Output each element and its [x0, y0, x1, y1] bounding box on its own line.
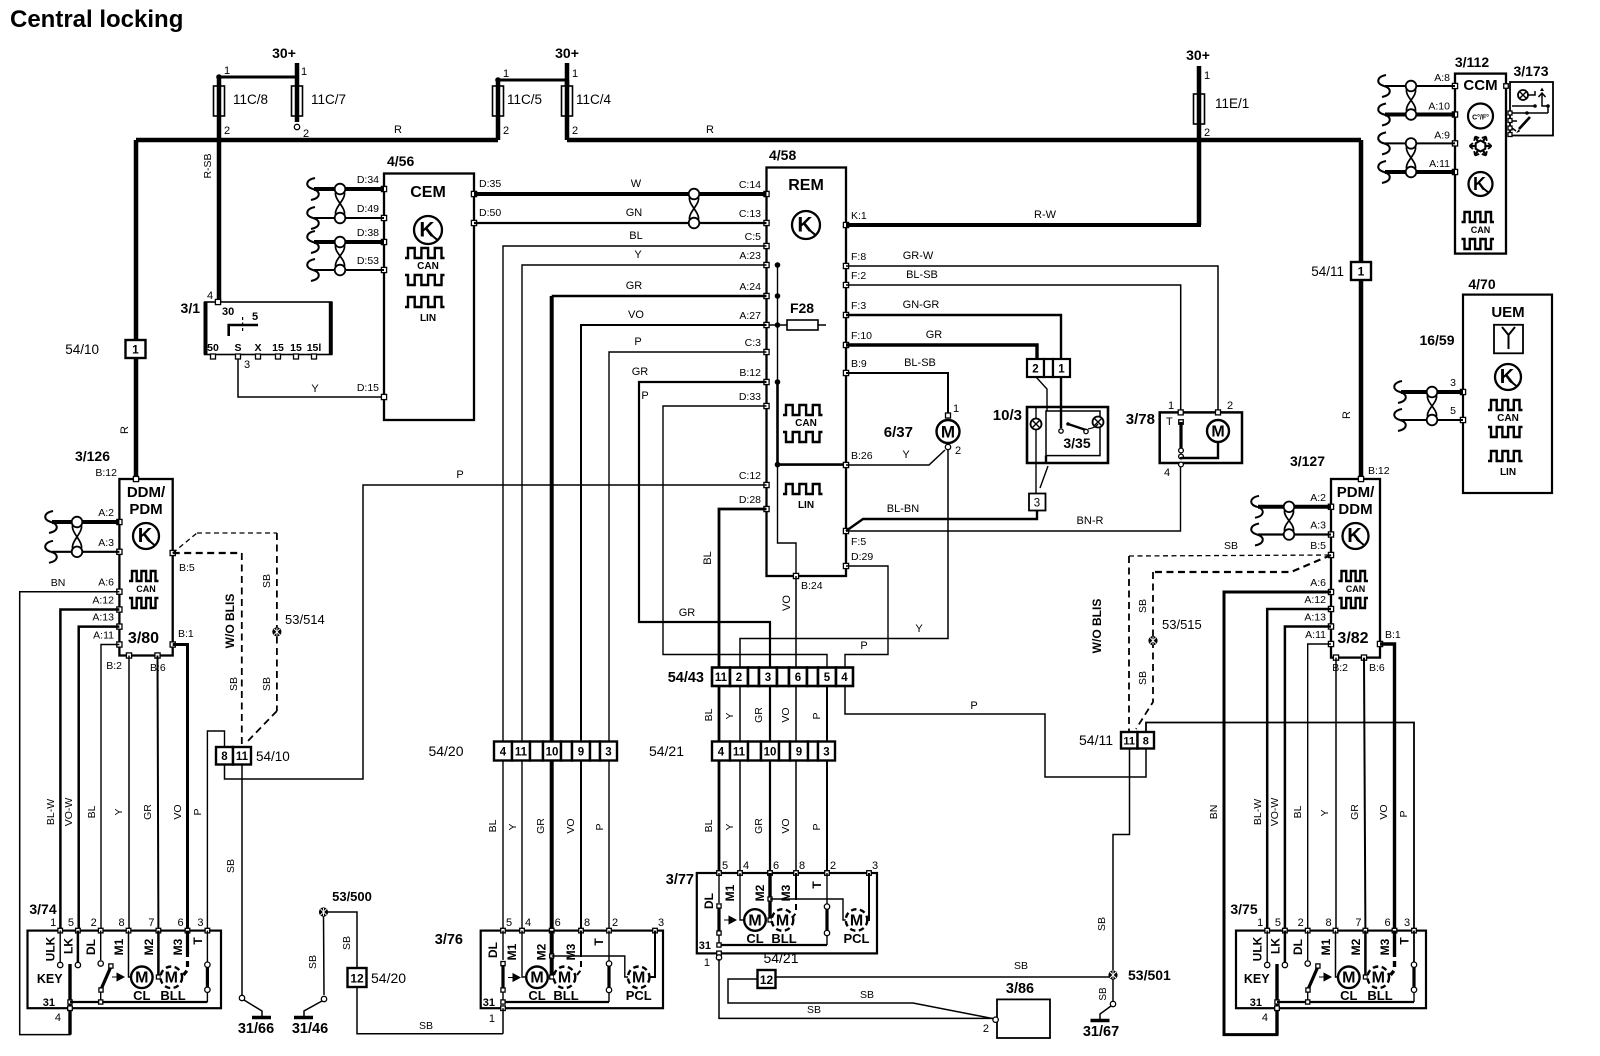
svg-text:3/82: 3/82: [1337, 630, 1368, 647]
svg-text:M1: M1: [505, 943, 519, 960]
3/74 motor BLL: [157, 931, 160, 977]
wire R bus left: [136, 138, 498, 143]
REM pin F:2: [843, 282, 848, 287]
svg-text:D:49: D:49: [357, 203, 379, 215]
PDM pin A:11: [1328, 641, 1333, 646]
wire BL A:11 to 3/74 pin2: [101, 645, 119, 931]
svg-text:B:26: B:26: [851, 450, 873, 462]
unit 3/86: [997, 999, 1050, 1038]
svg-text:1: 1: [50, 917, 56, 929]
door lock unit 3/76 left rear: [481, 931, 663, 1009]
wire BL D:28 to 54/43 pin11: [719, 509, 767, 668]
svg-text:VO: VO: [780, 707, 792, 722]
svg-text:K: K: [1347, 525, 1362, 547]
wire SB 3/77 pin1 to 3/86 pin2: [719, 959, 993, 1018]
svg-text:A:11: A:11: [1305, 629, 1326, 641]
svg-text:LK: LK: [1268, 938, 1282, 954]
svg-text:REM: REM: [788, 177, 824, 194]
svg-text:11C/8: 11C/8: [233, 92, 268, 107]
svg-text:C:3: C:3: [745, 337, 762, 349]
wire Y 54/20 to 3/76 pin4: [521, 761, 523, 931]
REM pin B:26: [843, 462, 848, 467]
wire VO-W A:13 to 3/75 pin5: [1285, 627, 1331, 931]
svg-text:3/86: 3/86: [1006, 981, 1034, 997]
svg-text:11: 11: [733, 746, 746, 758]
svg-text:Y: Y: [634, 249, 642, 261]
svg-text:K: K: [1473, 174, 1486, 194]
svg-text:R: R: [119, 426, 131, 434]
svg-text:1: 1: [224, 65, 230, 77]
svg-text:54/10: 54/10: [256, 749, 290, 764]
svg-text:31/67: 31/67: [1083, 1024, 1119, 1040]
svg-text:B:12: B:12: [1368, 465, 1390, 477]
3/75 DL switch: [1307, 931, 1309, 960]
svg-text:T: T: [1166, 416, 1173, 428]
UEM pin 3: [1460, 389, 1465, 394]
svg-text:CL: CL: [1340, 988, 1357, 1003]
wire GR loop B:12 to 54/43 pin3: [639, 382, 770, 668]
svg-text:5: 5: [824, 672, 831, 684]
svg-text:4/58: 4/58: [769, 147, 796, 163]
wire BN A:6 to 3/74 pin4: [20, 592, 120, 1035]
wire SB dashed W/O BLIS to PDM B:5: [1129, 555, 1331, 556]
switch unit 3/35 box: [1046, 411, 1100, 456]
svg-text:SB: SB: [1096, 917, 1108, 931]
REM pin F:3: [843, 312, 848, 317]
3/77 M3 dashed wire: [795, 873, 797, 894]
DDM CAN symbol: [129, 571, 158, 581]
wire Y B:26 to 6/37 pin2: [846, 450, 945, 465]
REM pin B:9: [843, 370, 848, 375]
svg-text:KEY: KEY: [37, 972, 63, 986]
svg-text:8: 8: [1325, 917, 1331, 929]
svg-text:3: 3: [1404, 917, 1410, 929]
svg-text:1: 1: [1204, 70, 1210, 82]
svg-text:A:13: A:13: [1304, 612, 1326, 624]
DDM pin A:2: [117, 519, 122, 524]
svg-text:4: 4: [841, 672, 848, 684]
door lock unit 3/74 driver: [28, 931, 222, 1009]
svg-text:11C/4: 11C/4: [576, 92, 612, 107]
svg-text:3: 3: [1034, 498, 1040, 510]
svg-text:5: 5: [1450, 405, 1456, 417]
svg-text:8: 8: [1143, 736, 1149, 748]
3/74 motor CL: [129, 931, 132, 977]
ground 31/46: [321, 996, 326, 1001]
svg-text:BL: BL: [86, 805, 98, 818]
svg-text:GR: GR: [626, 280, 643, 292]
svg-text:B:5: B:5: [179, 562, 195, 574]
svg-text:BN: BN: [1208, 805, 1220, 820]
svg-text:C°/F°: C°/F°: [1472, 114, 1489, 122]
svg-text:DL: DL: [84, 939, 98, 955]
CCM pin A:9: [1452, 141, 1457, 146]
PDM pin A:2: [1328, 504, 1333, 509]
wire VO B:1 to 3/74 pin6: [173, 645, 188, 931]
svg-text:7: 7: [1355, 917, 1361, 929]
svg-text:7: 7: [148, 917, 154, 929]
wire SB 53/500 down to 31/46: [323, 916, 326, 995]
connector 54/10 pin 1: [126, 340, 146, 358]
ground 31/66: [239, 995, 244, 1000]
svg-text:31: 31: [1250, 997, 1262, 1009]
svg-text:1: 1: [301, 66, 307, 78]
svg-text:M: M: [850, 912, 863, 929]
svg-text:VO: VO: [172, 804, 184, 819]
ground junction 53/514: [272, 627, 281, 636]
wire BL 54/21 to 3/77 pin5: [718, 761, 721, 874]
svg-text:3/74: 3/74: [29, 901, 56, 917]
wire SB 54/20 pin12 to 3/76 pin1: [357, 987, 503, 1034]
svg-text:BL: BL: [702, 551, 714, 564]
svg-text:SB: SB: [225, 859, 237, 873]
svg-text:2: 2: [1032, 363, 1038, 375]
svg-text:BL-W: BL-W: [1252, 799, 1264, 825]
REM pin A:23: [764, 262, 769, 267]
svg-text:4: 4: [1164, 467, 1170, 479]
svg-text:A:2: A:2: [98, 507, 114, 519]
svg-text:B:2: B:2: [106, 660, 122, 672]
svg-text:LK: LK: [61, 938, 75, 954]
svg-text:2: 2: [612, 917, 618, 929]
REM pin C:5: [764, 243, 769, 248]
fuse F28: [767, 324, 827, 326]
svg-text:10/3: 10/3: [993, 407, 1022, 424]
CEM pin D:49: [381, 215, 386, 220]
svg-text:A:3: A:3: [98, 537, 114, 549]
svg-text:10: 10: [546, 746, 559, 758]
3/75 DL arrow: [1319, 973, 1331, 981]
wire VO 54/43 to 54/21: [795, 686, 797, 742]
svg-text:M2: M2: [142, 938, 156, 955]
wire VO loop A:27: [581, 325, 767, 742]
svg-text:D:15: D:15: [357, 382, 379, 394]
3/75 31 bus: [1277, 1001, 1414, 1003]
CEM pin D:35: [471, 191, 476, 196]
wire SB dashed B:5 to W/O BLIS drop: [173, 552, 242, 554]
wire BL A:11 to 3/75 pin2: [1308, 644, 1331, 931]
svg-text:12: 12: [350, 972, 364, 986]
svg-text:2: 2: [736, 672, 742, 684]
wire P 54/11 pin8 to 3/75 pin3: [1146, 723, 1414, 931]
wire GR 54/43 to 54/21: [769, 686, 771, 742]
svg-text:4: 4: [500, 746, 507, 758]
fuse 11E/1: [1197, 66, 1202, 225]
3/77 DL contact: [718, 873, 720, 903]
svg-text:30+: 30+: [555, 45, 579, 61]
wire P loop C:12 to 54/10 pin8: [225, 485, 767, 779]
svg-text:31: 31: [483, 997, 495, 1009]
svg-text:BL-SB: BL-SB: [904, 357, 936, 369]
svg-text:9: 9: [796, 746, 802, 758]
svg-text:B:12: B:12: [739, 367, 761, 379]
svg-text:3/112: 3/112: [1455, 54, 1489, 70]
svg-text:M: M: [1342, 970, 1355, 987]
svg-text:GR-W: GR-W: [903, 250, 934, 262]
twisted pair into CEM D:34/D:49: [307, 178, 319, 200]
svg-text:R-SB: R-SB: [202, 153, 214, 178]
svg-text:5: 5: [252, 311, 258, 323]
svg-text:PDM: PDM: [129, 501, 162, 518]
svg-text:R-W: R-W: [1034, 209, 1057, 221]
fuse 11C/7: [295, 86, 300, 122]
module PDM/DDM 3/127: [1331, 479, 1380, 658]
svg-text:53/514: 53/514: [285, 612, 325, 627]
wire GR F:10 to 10/3 pin2: [846, 345, 1037, 359]
wire P 54/43 to 54/21: [826, 686, 828, 742]
svg-text:Y: Y: [507, 823, 519, 830]
3/173 pins: [1504, 84, 1509, 89]
3/74 DL switch: [100, 931, 102, 960]
3/75 motor BLL: [1364, 931, 1367, 977]
svg-text:BL-SB: BL-SB: [906, 269, 938, 281]
wire Y 54/21 to 3/77 pin4: [739, 761, 741, 874]
svg-text:53/515: 53/515: [1162, 617, 1202, 632]
DDM pin B:1: [170, 642, 175, 647]
wire R drop to 3/127: [1359, 140, 1364, 479]
wire BL-SB F:2 to 3/78 pin1: [846, 285, 1181, 412]
wire W D:35 to C:14: [474, 192, 767, 196]
svg-text:8: 8: [584, 917, 590, 929]
svg-text:M: M: [530, 970, 543, 987]
svg-text:3/1: 3/1: [181, 300, 201, 316]
svg-text:1: 1: [953, 403, 959, 415]
svg-text:X: X: [254, 342, 261, 354]
svg-text:ULK: ULK: [44, 936, 58, 961]
svg-text:LIN: LIN: [798, 500, 814, 511]
wire P loop D:33 to 54/43 pin5: [663, 406, 827, 668]
3/75 motor CL: [1336, 931, 1339, 977]
svg-text:2: 2: [955, 445, 961, 457]
3/74 31 bus: [70, 1001, 207, 1003]
svg-text:M1: M1: [723, 884, 737, 901]
svg-text:BN: BN: [51, 577, 66, 589]
svg-text:1: 1: [1358, 265, 1365, 279]
switch 3/35 blade: [1060, 377, 1062, 428]
svg-text:T: T: [592, 938, 606, 946]
svg-text:VO: VO: [628, 309, 644, 321]
svg-text:4: 4: [207, 290, 213, 302]
wire BL-W A:12 to 3/75 pin1: [1267, 609, 1331, 931]
unit 10/3 box: [1027, 407, 1108, 463]
3/77 arrow: [724, 916, 736, 924]
CEM pin D:53: [381, 267, 386, 272]
svg-text:3: 3: [605, 746, 611, 758]
svg-text:BLL: BLL: [553, 988, 578, 1003]
wire Y B:2 to 3/75 pin8: [1335, 658, 1337, 931]
svg-text:54/20: 54/20: [371, 970, 406, 986]
CCM CAN symbol: [1462, 212, 1495, 222]
svg-text:16/59: 16/59: [1419, 332, 1454, 348]
3/76 arrow: [508, 974, 520, 982]
svg-text:5: 5: [1275, 917, 1281, 929]
svg-text:SB: SB: [307, 955, 319, 969]
wire BL loop C:5: [503, 246, 767, 742]
svg-text:A:24: A:24: [739, 281, 761, 293]
svg-text:M: M: [165, 970, 178, 987]
svg-text:11C/5: 11C/5: [507, 92, 542, 107]
DDM pin A:11: [117, 642, 122, 647]
svg-text:3/173: 3/173: [1513, 63, 1548, 79]
twisted pair into PDM A:2/A:3: [1251, 496, 1263, 518]
svg-text:3/35: 3/35: [1063, 435, 1090, 451]
connector 54/11 pin 1: [1351, 262, 1371, 280]
svg-text:1: 1: [572, 68, 578, 80]
lamp left in 10/3: [1031, 419, 1042, 430]
REM pin B:12: [764, 379, 769, 384]
svg-text:SB: SB: [261, 574, 273, 588]
3/76 motor BLL: [550, 931, 554, 977]
module CCM 3/112: [1455, 74, 1506, 254]
svg-text:BL: BL: [703, 708, 715, 721]
REM pin C:13: [764, 220, 769, 225]
DDM pin B:2: [126, 653, 131, 658]
svg-text:DL: DL: [702, 893, 716, 909]
svg-text:SB: SB: [341, 936, 353, 950]
wire GN D:50 to C:13: [474, 222, 767, 224]
fuse 11C/8: [217, 77, 222, 140]
svg-text:M3: M3: [1378, 938, 1392, 955]
PDM pin A:13: [1328, 624, 1333, 629]
svg-text:M: M: [1372, 970, 1385, 987]
svg-text:A:13: A:13: [92, 612, 114, 624]
svg-text:54/43: 54/43: [668, 670, 704, 686]
wire BL 54/43 to 54/21: [718, 686, 721, 742]
svg-text:R: R: [706, 124, 714, 136]
svg-text:M3: M3: [171, 938, 185, 955]
svg-text:VO-W: VO-W: [1269, 798, 1281, 827]
svg-text:3: 3: [823, 746, 829, 758]
svg-text:2: 2: [830, 860, 836, 872]
svg-text:BL: BL: [1292, 805, 1304, 818]
svg-text:6: 6: [795, 672, 801, 684]
svg-text:B:5: B:5: [1310, 540, 1326, 552]
3/78 T contact: [1179, 420, 1184, 425]
REM internal line to B:26: [778, 382, 847, 465]
DDM pin B:6: [155, 653, 160, 658]
svg-text:T: T: [810, 881, 824, 889]
svg-text:DL: DL: [486, 942, 500, 958]
svg-text:UEM: UEM: [1491, 304, 1524, 321]
wire P 3/74 pin3 to 54/10 pin8: [207, 731, 224, 931]
PDM pin A:3: [1328, 532, 1333, 537]
svg-text:B:6: B:6: [1369, 662, 1385, 674]
svg-text:2: 2: [91, 917, 97, 929]
svg-text:VO-W: VO-W: [63, 798, 75, 827]
lamp right in 10/3: [1093, 417, 1104, 428]
svg-text:11: 11: [236, 751, 249, 763]
wire Y loop A:23: [522, 265, 767, 742]
svg-text:BL: BL: [703, 819, 715, 832]
DDM pin A:3: [117, 549, 122, 554]
PDM pin A:12: [1328, 606, 1333, 611]
wire GR B:6 to 3/75 pin7: [1364, 658, 1365, 931]
twisted pair symbol W/GN: [689, 198, 698, 220]
svg-text:2: 2: [983, 1023, 989, 1035]
REM pin C:14: [764, 191, 769, 196]
svg-text:P: P: [594, 823, 606, 830]
wire P loop C:3: [609, 352, 767, 742]
svg-text:R: R: [1341, 411, 1353, 419]
svg-text:CAN: CAN: [1497, 413, 1519, 424]
svg-text:3/126: 3/126: [75, 448, 110, 464]
svg-text:PCL: PCL: [626, 988, 652, 1003]
CEM pin D:34: [381, 186, 386, 191]
svg-text:Y: Y: [724, 712, 736, 719]
svg-text:15: 15: [272, 342, 284, 354]
svg-text:1: 1: [132, 343, 139, 357]
REM K symbol: [792, 211, 820, 239]
ignition key symbol: [229, 325, 258, 336]
svg-text:2: 2: [572, 125, 578, 137]
DDM pin A:6: [117, 589, 122, 594]
REM CAN symbol: [783, 405, 823, 415]
svg-text:A:8: A:8: [1434, 72, 1450, 84]
svg-text:DL: DL: [1291, 939, 1305, 955]
svg-text:D:50: D:50: [479, 207, 501, 219]
svg-text:CAN: CAN: [417, 261, 439, 272]
CCM pin A:11: [1452, 169, 1457, 174]
svg-text:A:12: A:12: [1304, 594, 1326, 606]
REM internal line to B:24: [778, 465, 797, 576]
wire GR 54/21 to 3/77 pin6: [769, 761, 771, 874]
svg-text:BLL: BLL: [160, 988, 185, 1003]
wire SB 53/500 to 54/20 pin12: [328, 912, 357, 968]
ground junction 53/500: [319, 907, 328, 916]
svg-text:P: P: [1398, 810, 1410, 817]
svg-text:CAN: CAN: [1346, 584, 1366, 594]
wire Y 54/43 to 54/21: [739, 686, 741, 742]
3/77 31 bus: [719, 944, 827, 946]
CEM LIN symbol: [405, 297, 445, 307]
svg-text:M2: M2: [535, 943, 549, 960]
svg-text:Y: Y: [902, 449, 910, 461]
svg-text:6: 6: [1384, 917, 1390, 929]
svg-text:3/76: 3/76: [435, 932, 463, 948]
wire VO-W A:13 to 3/74 pin5: [79, 627, 120, 931]
3/76 motor CL: [522, 931, 526, 977]
wire GN-GR F:3 to 10/3 pin1: [846, 315, 1061, 359]
CCM pin A:10: [1452, 112, 1457, 117]
svg-text:M1: M1: [1319, 938, 1333, 955]
REM pin B:24: [793, 573, 798, 578]
CEM K symbol: [414, 216, 442, 244]
3/173 pen symbol: [1519, 117, 1530, 129]
DDM K symbol: [133, 523, 159, 549]
svg-text:6: 6: [773, 860, 779, 872]
svg-text:B:9: B:9: [851, 358, 867, 370]
3/77 motor PCL: [846, 909, 868, 931]
REM internal bus: [777, 265, 779, 382]
svg-text:P: P: [970, 700, 977, 712]
3/74 M3 dashed wire: [186, 931, 189, 951]
svg-text:A:3: A:3: [1310, 520, 1326, 532]
3/76 DL contact: [502, 931, 504, 960]
wire P 54/43 pin4 to 54/11 pin8: [845, 686, 1146, 777]
svg-text:K: K: [1500, 366, 1515, 388]
svg-text:54/21: 54/21: [649, 743, 684, 759]
svg-text:C:12: C:12: [739, 470, 761, 482]
REM pin C:3: [764, 349, 769, 354]
DDM pin A:13: [117, 624, 122, 629]
svg-text:50: 50: [207, 342, 219, 354]
REM LIN symbol: [783, 484, 823, 494]
svg-text:D:35: D:35: [479, 178, 501, 190]
svg-text:1: 1: [503, 68, 509, 80]
svg-text:4: 4: [525, 917, 531, 929]
svg-text:C:5: C:5: [745, 231, 762, 243]
svg-text:3: 3: [244, 359, 250, 371]
